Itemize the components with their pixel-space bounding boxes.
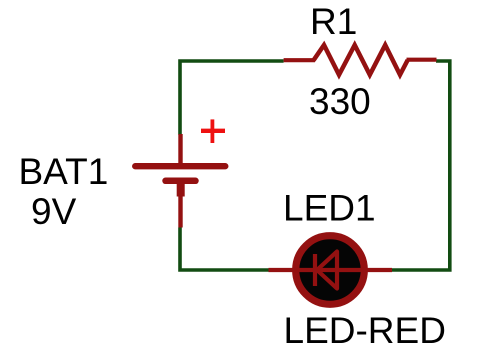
label LED1 xyxy=(283,188,376,229)
label R1 xyxy=(310,1,357,42)
wire xyxy=(180,228,269,271)
value LED-RED xyxy=(284,310,446,351)
svg-text:LED1: LED1 xyxy=(283,188,376,229)
label BAT1 xyxy=(19,151,109,192)
svg-text:9V: 9V xyxy=(31,191,77,232)
battery plus marker xyxy=(201,119,225,143)
svg-text:LED-RED: LED-RED xyxy=(284,310,446,351)
wire xyxy=(392,61,450,270)
wire xyxy=(180,61,284,135)
svg-text:330: 330 xyxy=(309,81,371,122)
svg-text:BAT1: BAT1 xyxy=(19,151,109,192)
svg-text:R1: R1 xyxy=(310,1,357,42)
battery BAT1 xyxy=(135,134,225,228)
LED LED1 xyxy=(269,236,393,305)
value 9V xyxy=(31,191,77,232)
value 330 xyxy=(309,81,371,122)
resistor R1 xyxy=(284,45,437,75)
